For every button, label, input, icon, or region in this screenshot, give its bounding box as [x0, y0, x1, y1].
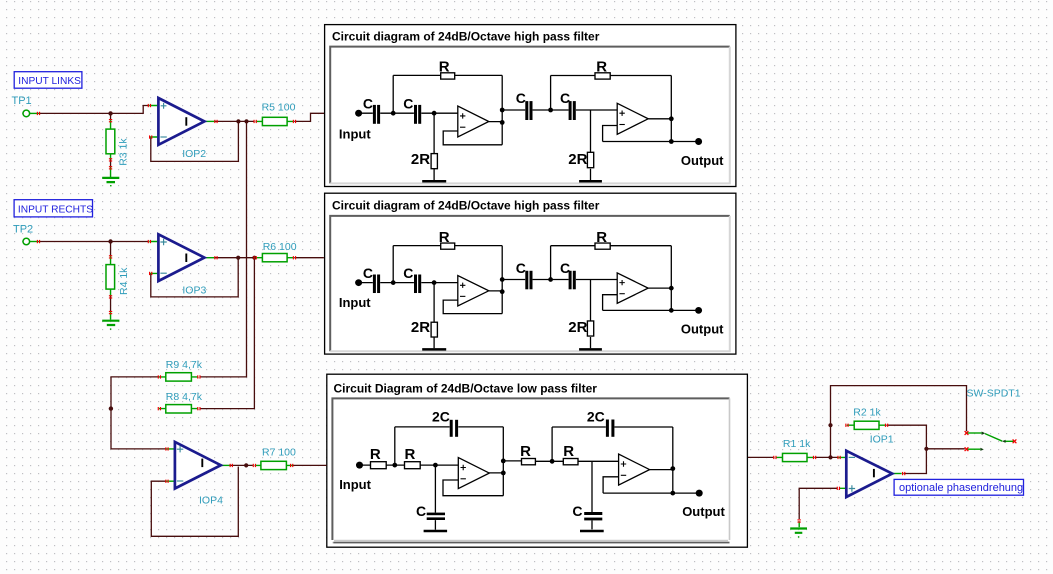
svg-text:C: C	[516, 90, 526, 106]
svg-text:R6 100: R6 100	[263, 241, 297, 253]
svg-text:IOP1: IOP1	[870, 434, 894, 446]
svg-text:C: C	[403, 95, 413, 111]
svg-text:R5 100: R5 100	[262, 102, 296, 114]
svg-text:INPUT RECHTS: INPUT RECHTS	[18, 204, 93, 215]
svg-text:R7 100: R7 100	[262, 446, 296, 458]
svg-text:Circuit Diagram of 24dB/Octave: Circuit Diagram of 24dB/Octave low pass …	[334, 381, 598, 395]
svg-text:Input: Input	[339, 477, 371, 492]
svg-text:IOP2: IOP2	[182, 148, 206, 160]
svg-text:Circuit diagram of 24dB/Octave: Circuit diagram of 24dB/Octave high pass…	[332, 30, 600, 44]
svg-text:R1 1k: R1 1k	[783, 438, 811, 450]
svg-text:2R: 2R	[568, 151, 587, 168]
svg-text:TP2: TP2	[13, 223, 33, 235]
svg-text:Output: Output	[682, 504, 725, 519]
svg-text:optionale phasendrehung: optionale phasendrehung	[899, 482, 1023, 494]
svg-text:IOP3: IOP3	[182, 284, 206, 296]
svg-text:Output: Output	[681, 153, 724, 168]
svg-text:Circuit diagram of 24dB/Octave: Circuit diagram of 24dB/Octave high pass…	[332, 198, 600, 212]
svg-text:R8 4,7k: R8 4,7k	[166, 391, 203, 403]
svg-text:R4 1k: R4 1k	[118, 267, 130, 295]
svg-text:C: C	[416, 503, 426, 519]
svg-text:C: C	[572, 503, 582, 519]
svg-text:2C: 2C	[587, 409, 605, 425]
svg-text:Input: Input	[339, 126, 371, 141]
svg-text:R: R	[370, 446, 381, 463]
svg-text:R: R	[520, 443, 531, 460]
svg-text:IOP4: IOP4	[199, 494, 223, 506]
svg-text:R3 1k: R3 1k	[118, 138, 130, 166]
svg-text:SW-SPDT1: SW-SPDT1	[967, 387, 1021, 399]
svg-text:TP1: TP1	[12, 95, 32, 107]
svg-text:INPUT LINKS: INPUT LINKS	[18, 76, 81, 87]
svg-text:C: C	[363, 95, 373, 111]
svg-text:2R: 2R	[411, 151, 430, 168]
svg-text:R: R	[405, 446, 416, 463]
svg-text:2C: 2C	[432, 409, 450, 425]
svg-text:R9 4,7k: R9 4,7k	[166, 359, 203, 371]
svg-text:R: R	[563, 443, 574, 460]
svg-text:R: R	[596, 59, 607, 76]
svg-text:R2 1k: R2 1k	[853, 407, 881, 419]
svg-text:C: C	[560, 90, 570, 106]
svg-text:R: R	[439, 59, 450, 76]
